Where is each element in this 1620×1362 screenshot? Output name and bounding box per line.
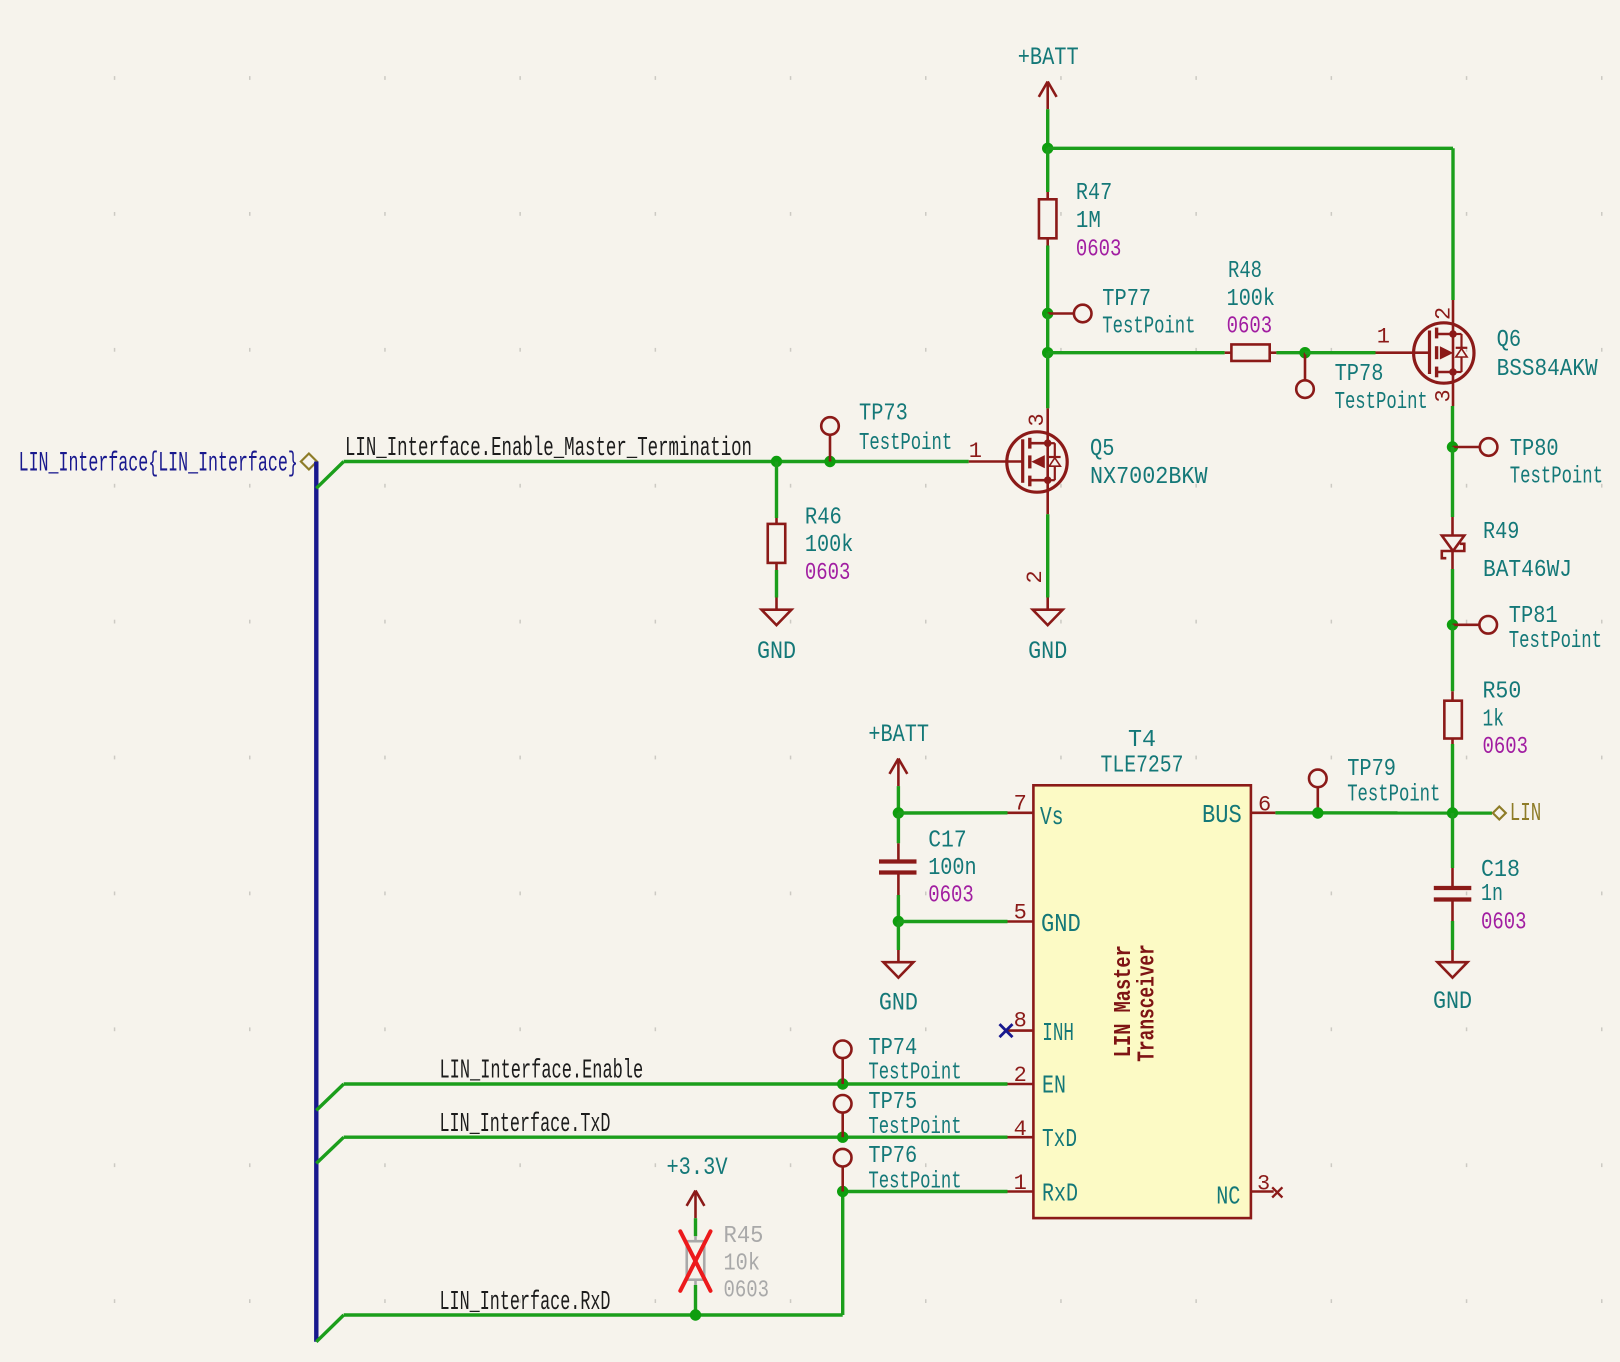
svg-text:TestPoint: TestPoint (868, 1169, 961, 1196)
junction at LIN node (1447, 807, 1458, 818)
junction at TP75 (837, 1132, 848, 1143)
svg-text:Q5: Q5 (1090, 436, 1115, 463)
junction +BATT node (1042, 143, 1053, 154)
diode R49 BAT46WJ (1442, 517, 1572, 584)
ground under C17 (879, 950, 918, 1018)
wire Q6 drain to TP80 node (1451, 406, 1454, 447)
pin 7 Vs (1008, 792, 1064, 832)
ground under R46 (757, 598, 796, 667)
svg-text:0603: 0603 (928, 883, 974, 910)
wire R49 to TP81 node (1451, 569, 1454, 625)
wire R46 top (775, 462, 778, 519)
pin 3 NC with unconnected cross (1216, 1172, 1282, 1212)
bus LIN_Interface (314, 462, 318, 1342)
svg-text:0603: 0603 (1481, 910, 1527, 937)
svg-text:3: 3 (1257, 1172, 1270, 1197)
testpoint TP79 (1309, 756, 1440, 813)
power +BATT top (1018, 43, 1079, 109)
transistor Q5 NX7002BKW (969, 408, 1208, 583)
svg-text:100k: 100k (805, 532, 853, 559)
svg-text:TestPoint: TestPoint (1509, 628, 1602, 655)
svg-text:GND: GND (1433, 987, 1472, 1016)
wire +3.3V to R45 (694, 1218, 697, 1236)
svg-text:10k: 10k (724, 1250, 761, 1277)
testpoint TP73 (821, 401, 952, 462)
junction at TP79 (1312, 807, 1323, 818)
resistor R46 (768, 504, 854, 587)
wire Vs node to pin 7 (898, 811, 1007, 815)
wire RxD vertical (841, 1192, 844, 1316)
svg-text:R45: R45 (724, 1223, 764, 1250)
svg-text:LIN_Interface{LIN_Interface}: LIN_Interface{LIN_Interface} (19, 449, 298, 480)
wire TP80 to R49 (1451, 447, 1454, 517)
hierarchical label LIN_Interface{LIN_Interface} (19, 449, 317, 480)
wire GND node to pin 5 (898, 920, 1007, 923)
svg-text:2: 2 (1432, 307, 1457, 320)
capacitor C18 (1434, 813, 1527, 937)
svg-text:RxD: RxD (1042, 1179, 1078, 1209)
junction at TP73 (824, 456, 835, 467)
wire C17 to GND node (897, 895, 900, 922)
pin 5 GND (1008, 901, 1081, 939)
svg-text:2: 2 (1014, 1063, 1027, 1088)
pin 4 TxD (1008, 1117, 1078, 1154)
wire C18 to ground (1451, 921, 1454, 950)
svg-text:TP79: TP79 (1347, 756, 1396, 783)
junction at TP78 (1299, 347, 1310, 358)
junction GND node (893, 916, 904, 927)
svg-text:TP74: TP74 (868, 1035, 917, 1062)
svg-text:TxD: TxD (1042, 1124, 1077, 1154)
bus entry to TxD wire (316, 1137, 343, 1163)
svg-text:TestPoint: TestPoint (1510, 464, 1603, 491)
wire RxD horizontal (344, 1313, 843, 1316)
svg-text:1M: 1M (1076, 208, 1101, 235)
resistor R45 (DNP, greyed) (687, 1223, 769, 1305)
svg-text:TestPoint: TestPoint (868, 1060, 961, 1087)
svg-text:GND: GND (879, 989, 918, 1018)
wire Enable (344, 1082, 1008, 1085)
svg-text:TP75: TP75 (868, 1089, 917, 1116)
svg-text:0603: 0603 (1483, 734, 1529, 761)
testpoint TP75 (834, 1089, 962, 1141)
svg-text:TP78: TP78 (1335, 361, 1384, 388)
wire R48 to TP78 node (1276, 351, 1305, 354)
svg-text:R49: R49 (1483, 519, 1519, 546)
pin 1 RxD (1008, 1171, 1079, 1209)
svg-text:1n: 1n (1481, 881, 1503, 908)
transistor Q6 BSS84AKW (1376, 300, 1599, 406)
testpoint TP74 (834, 1035, 962, 1087)
svg-text:5: 5 (1014, 901, 1027, 926)
svg-text:0603: 0603 (724, 1278, 770, 1305)
svg-text:0603: 0603 (805, 560, 851, 587)
svg-text:T4: T4 (1128, 727, 1156, 754)
svg-text:2: 2 (1023, 570, 1048, 583)
svg-text:BUS: BUS (1202, 800, 1242, 830)
junction at R48 wire (1042, 347, 1053, 358)
svg-text:+3.3V: +3.3V (666, 1153, 727, 1182)
hierarchical label LIN (1493, 798, 1542, 828)
svg-text:Q6: Q6 (1497, 327, 1522, 354)
wire +BATT to Vs node (897, 786, 900, 813)
bus entry to Enable_Master_Termination wire (316, 462, 343, 489)
svg-text:1: 1 (1377, 325, 1390, 350)
svg-text:TestPoint: TestPoint (859, 430, 952, 457)
ground under Q5 (1028, 598, 1067, 667)
junction at TP80 (1447, 441, 1458, 452)
testpoint TP76 (834, 1143, 962, 1196)
svg-text:NC: NC (1216, 1182, 1240, 1212)
resistor R47 (1039, 148, 1121, 313)
svg-text:LIN_Interface.Enable: LIN_Interface.Enable (440, 1057, 644, 1087)
junction at TP77 (1042, 308, 1053, 319)
ground under C18 (1433, 950, 1472, 1016)
pin 2 EN (1008, 1063, 1067, 1100)
wire TP81 to R50 (1451, 625, 1454, 692)
wire Enable_Master_Termination (344, 460, 969, 463)
testpoint TP78 (1296, 353, 1428, 416)
svg-text:+BATT: +BATT (868, 720, 929, 749)
wire R45 to RxD (694, 1285, 697, 1315)
svg-text:C17: C17 (928, 828, 967, 855)
svg-text:TestPoint: TestPoint (868, 1114, 961, 1141)
capacitor C17 (879, 813, 977, 910)
svg-text:GND: GND (1028, 637, 1067, 666)
svg-text:8: 8 (1014, 1009, 1027, 1034)
svg-text:BAT46WJ: BAT46WJ (1483, 557, 1572, 584)
svg-text:EN: EN (1042, 1071, 1066, 1101)
DNP red cross over R45 (680, 1231, 710, 1291)
svg-text:100n: 100n (928, 855, 976, 882)
svg-text:TestPoint: TestPoint (1335, 389, 1428, 416)
wire Q5 source to ground (1046, 514, 1049, 597)
bus entry to Enable wire (316, 1084, 343, 1110)
svg-text:GND: GND (1041, 909, 1081, 939)
junction at TP76 (837, 1186, 848, 1197)
svg-text:TLE7257: TLE7257 (1101, 753, 1184, 780)
svg-text:LIN_Interface.Enable_Master_Te: LIN_Interface.Enable_Master_Termination (345, 434, 752, 464)
wire to R48 (1048, 351, 1225, 354)
wire TxD (344, 1135, 1008, 1138)
svg-text:TP76: TP76 (868, 1143, 917, 1170)
svg-text:3: 3 (1432, 389, 1457, 402)
svg-text:3: 3 (1025, 413, 1050, 426)
svg-text:4: 4 (1014, 1117, 1027, 1142)
svg-text:GND: GND (757, 637, 796, 666)
svg-text:INH: INH (1042, 1018, 1074, 1048)
svg-text:C18: C18 (1481, 857, 1520, 884)
svg-text:LIN: LIN (1510, 798, 1542, 828)
svg-text:BSS84AKW: BSS84AKW (1497, 356, 1599, 383)
svg-text:1: 1 (969, 439, 982, 464)
svg-text:0603: 0603 (1227, 314, 1273, 341)
svg-text:TestPoint: TestPoint (1102, 314, 1195, 341)
svg-text:R48: R48 (1228, 258, 1262, 285)
svg-text:TP73: TP73 (859, 401, 908, 428)
pin 8 INH with no-connect cross (1000, 1009, 1075, 1049)
svg-text:+BATT: +BATT (1018, 43, 1079, 72)
resistor R50 (1444, 679, 1528, 762)
svg-text:100k: 100k (1227, 286, 1275, 313)
svg-text:Transceiver: Transceiver (1134, 944, 1161, 1062)
junction at TP81 (1447, 619, 1458, 630)
svg-text:TP80: TP80 (1510, 436, 1559, 463)
power +BATT at C17 (868, 720, 929, 786)
testpoint TP80 (1453, 436, 1604, 491)
svg-text:TestPoint: TestPoint (1347, 781, 1440, 808)
svg-text:R47: R47 (1076, 180, 1112, 207)
resistor R48 (1225, 258, 1277, 361)
svg-text:R46: R46 (805, 504, 842, 531)
wire RxD to pin (843, 1190, 1008, 1193)
wire gate node to Q5 gate (1046, 353, 1049, 409)
wire R46 bottom (775, 570, 778, 598)
junction at TP74 (837, 1078, 848, 1089)
svg-text:TP81: TP81 (1509, 603, 1558, 630)
wire GND node down (897, 922, 900, 951)
wire BUS pin to LIN (1275, 811, 1492, 815)
svg-text:7: 7 (1014, 792, 1027, 817)
svg-text:6: 6 (1258, 793, 1271, 818)
bus entry to RxD wire (316, 1315, 343, 1342)
testpoint TP81 (1453, 603, 1603, 655)
svg-text:NX7002BKW: NX7002BKW (1090, 464, 1208, 491)
pin 6 BUS (1202, 793, 1275, 830)
wire R50 to LIN node (1451, 744, 1454, 813)
svg-text:1: 1 (1014, 1171, 1027, 1196)
junction at R45 bottom (690, 1309, 701, 1320)
svg-text:TP77: TP77 (1102, 286, 1151, 313)
junction Vs node (893, 807, 904, 818)
testpoint TP77 (1048, 286, 1196, 341)
wire +BATT to junction (1046, 109, 1049, 148)
svg-text:1k: 1k (1483, 707, 1505, 734)
wire +BATT rail to Q6 drain (1048, 148, 1453, 300)
wire TP77 node down to gate node (1046, 314, 1049, 353)
svg-text:R50: R50 (1483, 679, 1522, 706)
svg-text:Vs: Vs (1040, 802, 1064, 832)
IC T4 TLE7257 body (1033, 727, 1251, 1218)
wire TP78 node to Q6 gate (1305, 351, 1376, 354)
junction at R46 top (771, 456, 782, 467)
svg-text:0603: 0603 (1076, 236, 1122, 263)
power +3.3V (666, 1153, 727, 1218)
